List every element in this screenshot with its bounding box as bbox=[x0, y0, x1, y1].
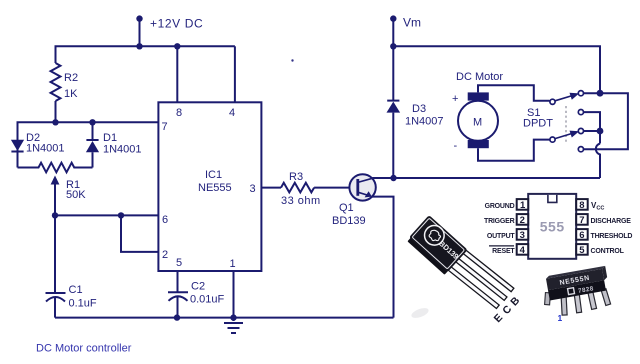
faint reflection smudge bbox=[410, 306, 430, 320]
555 pinout pin box 4 bbox=[517, 244, 529, 255]
svg-text:1N4001: 1N4001 bbox=[103, 144, 142, 156]
node junction C2/rail bbox=[174, 314, 180, 320]
node junction pin1/rail bbox=[230, 314, 236, 320]
capacitor C1 bbox=[46, 292, 66, 294]
wire throw2up stub bbox=[584, 130, 601, 132]
svg-text:BD139: BD139 bbox=[332, 215, 366, 227]
svg-text:+: + bbox=[452, 93, 458, 105]
svg-text:RESET: RESET bbox=[492, 248, 515, 255]
BD139 photo legs bbox=[445, 247, 514, 310]
svg-text:1N4007: 1N4007 bbox=[405, 116, 444, 128]
svg-text:4: 4 bbox=[520, 245, 526, 256]
switch pole2 throw down contact bbox=[578, 147, 583, 152]
svg-text:Q1: Q1 bbox=[339, 202, 354, 214]
svg-text:C1: C1 bbox=[69, 284, 83, 296]
wire diode top rail to pin 7 bbox=[18, 122, 159, 152]
svg-text:+12V DC: +12V DC bbox=[150, 17, 203, 31]
svg-text:33 ohm: 33 ohm bbox=[281, 195, 321, 207]
wire throw1up to outer loop bbox=[584, 93, 628, 149]
555 pinout pin box 2 bbox=[517, 214, 529, 225]
svg-text:5: 5 bbox=[579, 245, 585, 256]
555 pinout pin box 3 bbox=[517, 229, 529, 240]
wire top-left rail bbox=[56, 46, 235, 63]
resistor R1 potentiometer body bbox=[18, 163, 93, 173]
svg-text:R3: R3 bbox=[289, 171, 303, 183]
wire top-right rail bbox=[393, 46, 600, 93]
svg-text:2: 2 bbox=[520, 215, 525, 226]
diode D3 bbox=[387, 100, 399, 102]
svg-text:1N4001: 1N4001 bbox=[26, 143, 65, 155]
wire pin 8 stub bbox=[176, 46, 178, 102]
resistor R3 bbox=[281, 183, 314, 193]
power Vm terminal dot bbox=[390, 15, 396, 21]
svg-text:DC Motor: DC Motor bbox=[456, 71, 503, 83]
svg-text:0.1uF: 0.1uF bbox=[69, 298, 97, 310]
svg-text:DISCHARGE: DISCHARGE bbox=[591, 218, 632, 225]
node junction pin8/rail bbox=[174, 43, 180, 49]
svg-text:DC Motor controller: DC Motor controller bbox=[36, 343, 132, 355]
wire pin6 rail bbox=[55, 214, 158, 216]
node junction R2/diode rail bbox=[52, 119, 58, 125]
wire Vm stem bbox=[392, 19, 394, 100]
switch pole2 common contact bbox=[550, 137, 555, 142]
555 pinout pin box 6 bbox=[576, 229, 588, 240]
wire pin2 link bbox=[121, 215, 158, 252]
svg-text:2: 2 bbox=[162, 249, 168, 261]
wire pin 5 to C2 bbox=[177, 271, 179, 292]
svg-text:8: 8 bbox=[176, 107, 182, 119]
wire left rail to C1 bbox=[54, 215, 56, 292]
svg-text:6: 6 bbox=[162, 214, 168, 226]
svg-text:OUTPUT: OUTPUT bbox=[487, 233, 516, 240]
wire R3 to Q1 base bbox=[314, 187, 349, 189]
wire pin 1 down bbox=[233, 271, 235, 321]
svg-text:C2: C2 bbox=[191, 281, 205, 293]
wire motor plus to switch pole1 bbox=[478, 85, 550, 101]
switch S1 mechanical link dashed bbox=[565, 106, 567, 142]
svg-text:1: 1 bbox=[230, 258, 236, 270]
555 pinout pin box 1 bbox=[517, 199, 529, 210]
wire pin 3 stub bbox=[261, 187, 281, 189]
motor M body bbox=[458, 101, 498, 141]
svg-text:THRESHOLD: THRESHOLD bbox=[591, 233, 633, 240]
resistor R2 bbox=[51, 63, 61, 101]
wire motor minus to switch pole2 bbox=[478, 140, 550, 161]
BD139 photo package bbox=[406, 215, 467, 275]
svg-text:DPDT: DPDT bbox=[523, 118, 553, 130]
switch pole1 throw up contact bbox=[578, 91, 583, 96]
wire pin 4 stub bbox=[234, 46, 236, 102]
switch pole2 arm arrow bbox=[555, 132, 576, 138]
svg-text:M: M bbox=[473, 117, 482, 129]
node junction D3/collector rail bbox=[390, 175, 396, 181]
wire D2 leg to R1 bbox=[17, 152, 19, 168]
node junction +12V/rail bbox=[136, 43, 142, 49]
motor brush bottom bbox=[468, 140, 489, 148]
node junction Vm/rail bbox=[390, 43, 396, 49]
svg-text:Vm: Vm bbox=[403, 16, 421, 30]
svg-text:0.01uF: 0.01uF bbox=[190, 294, 225, 306]
svg-text:6: 6 bbox=[579, 230, 584, 241]
switch pole1 common contact bbox=[550, 99, 555, 104]
svg-text:5: 5 bbox=[176, 257, 182, 269]
svg-text:R2: R2 bbox=[64, 72, 78, 84]
ground bbox=[224, 322, 243, 324]
svg-text:4: 4 bbox=[229, 107, 235, 119]
wire Q1 emitter down bbox=[372, 197, 394, 318]
stray dot bbox=[291, 59, 293, 61]
svg-text:7: 7 bbox=[162, 121, 168, 133]
svg-text:555: 555 bbox=[540, 219, 565, 235]
svg-text:GROUND: GROUND bbox=[485, 203, 515, 210]
switch pole1 arm arrow bbox=[555, 95, 576, 101]
node junction D1/diode rail bbox=[89, 119, 95, 125]
switch pole1 throw down contact bbox=[578, 110, 583, 115]
switch pole2 throw up contact bbox=[578, 128, 583, 133]
wire hop over and down to rail bbox=[596, 144, 600, 179]
wire R2 bottom bbox=[55, 101, 57, 122]
svg-text:D1: D1 bbox=[103, 132, 117, 144]
node junction pin2 branch bbox=[118, 212, 124, 218]
svg-text:TRIGGER: TRIGGER bbox=[484, 218, 515, 225]
svg-text:50K: 50K bbox=[66, 189, 86, 201]
diode D2 bbox=[11, 140, 24, 151]
555 pinout body U2 bbox=[528, 194, 576, 259]
R1 wiper arrow bbox=[54, 180, 56, 215]
svg-text:1: 1 bbox=[558, 313, 563, 323]
555 pinout pin box 5 bbox=[576, 244, 588, 255]
node junction throw2up bbox=[597, 128, 604, 135]
capacitor C2 bbox=[168, 291, 188, 293]
power +12V DC terminal dot bbox=[136, 15, 142, 21]
555 pinout pin box 8 bbox=[576, 199, 588, 210]
555 pinout pin box 7 bbox=[576, 214, 588, 225]
svg-text:1: 1 bbox=[520, 200, 526, 211]
wire D1 leg to R1 bbox=[92, 152, 94, 167]
DIP-8 photo NE555N chip bbox=[540, 266, 613, 319]
wire bottom ground rail bbox=[55, 317, 394, 319]
555 pinout notch bbox=[548, 195, 557, 203]
svg-text:7: 7 bbox=[579, 215, 584, 226]
diode D1 bbox=[92, 122, 94, 140]
svg-text:-: - bbox=[454, 140, 458, 152]
svg-text:1K: 1K bbox=[64, 88, 78, 100]
svg-text:3: 3 bbox=[520, 230, 525, 241]
wire +12V stem bbox=[139, 19, 141, 47]
node junction top feed bbox=[597, 90, 604, 97]
svg-text:IC1: IC1 bbox=[205, 169, 222, 181]
transistor Q1 bbox=[349, 174, 375, 200]
svg-text:3: 3 bbox=[250, 183, 256, 195]
wire collector-return rail bbox=[373, 177, 601, 179]
svg-text:8: 8 bbox=[579, 200, 584, 211]
IC1 NE555 box bbox=[158, 102, 261, 271]
svg-text:CONTROL: CONTROL bbox=[591, 248, 625, 255]
svg-text:NE555: NE555 bbox=[198, 182, 232, 194]
node junction wiper/pin6 bbox=[52, 212, 58, 218]
svg-text:D3: D3 bbox=[412, 103, 426, 115]
motor brush top bbox=[468, 92, 489, 100]
wire throw1down to crossover bbox=[584, 112, 601, 143]
